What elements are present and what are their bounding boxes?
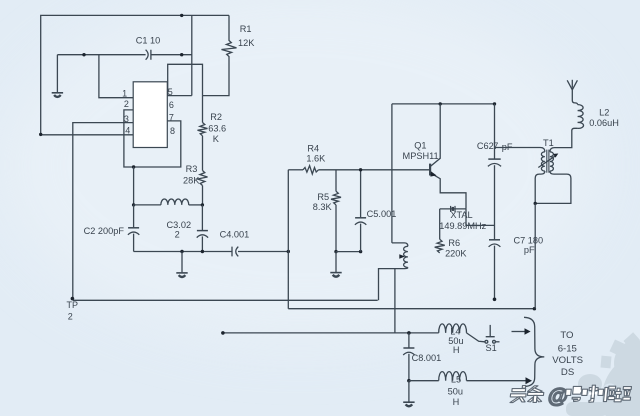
node dot L1 left [132,203,135,206]
capacitor C4 [232,247,238,257]
inductor L5 [439,372,467,381]
wire T1 bottoms box [535,171,571,203]
node dot pin2 net [132,165,135,168]
svg-text:TO: TO [560,330,573,341]
svg-text:T1: T1 [543,138,554,148]
svg-text:6: 6 [169,100,174,110]
svg-text:2: 2 [175,230,180,240]
brace [524,317,544,386]
capacitor C8 [403,333,414,381]
wire down to L1 node [133,167,135,205]
node dot near pin5 riser [180,53,183,56]
char tiao [526,386,544,403]
arrow lower [526,377,533,384]
svg-text:L4: L4 [450,327,460,337]
node dot C8 top [407,331,411,335]
node dot rail right end [533,307,536,310]
wire pin5 stub [167,95,192,97]
svg-text:H: H [453,397,460,407]
resistor R4 [303,166,319,174]
node dot C3 bottom [201,250,204,253]
wire left riser mid section [287,170,289,309]
node dot on top rail [180,14,183,17]
wire R2-R3 [202,136,204,171]
svg-text:L2: L2 [599,108,609,118]
capacitor C5 [355,170,366,252]
svg-text:@: @ [547,385,569,408]
arrow upper [512,328,531,335]
wire pin2 loop to pin7 [124,110,181,167]
svg-text:8: 8 [170,126,175,136]
svg-text:R6: R6 [448,238,460,248]
svg-text:2: 2 [124,99,129,109]
inductor tapped coil [379,243,408,300]
node dot R5 bottom [334,250,337,253]
capacitor C6 [488,159,501,166]
wire C4 to mid [238,251,288,253]
svg-text:R1: R1 [240,24,252,34]
resistor R5 [331,170,341,252]
antenna [567,80,577,90]
svg-text:Q1: Q1 [414,141,426,151]
node dot on C1 wire [82,53,85,56]
resistor R6 [435,239,445,253]
char hu [581,385,598,402]
svg-text:R3: R3 [186,164,198,174]
transistor Q1 [430,104,466,209]
resistor R1 [203,15,237,95]
crystal XTAL [451,206,455,212]
svg-text:C7 180: C7 180 [513,235,543,245]
wire L5 left lead [409,380,439,382]
inductor L1 [161,199,189,205]
wire R2 chain vertical [202,96,204,123]
svg-text:C4.001: C4.001 [220,230,250,240]
node dot C8 bottom [407,379,411,383]
char ming [565,386,582,401]
svg-text:C2 200pF: C2 200pF [84,226,125,236]
node dot T1 bottom [534,202,537,205]
wire gnd stub mid [181,252,183,273]
svg-text:C62: C62 [477,141,494,151]
svg-text:pF: pF [502,142,513,152]
wire xtal to R6 [439,209,441,239]
wire R5 to C5 bottom [336,251,361,253]
ground mid [176,273,187,277]
gear watermark big [566,332,640,416]
wire collector rail [392,103,495,105]
svg-text:C1 10: C1 10 [136,36,161,46]
node dot collector [439,102,442,105]
wire C6 to C7 [494,165,496,239]
wire to T1 primary top [495,148,545,152]
wire TP2 rail [73,299,378,301]
wire feedback riser [391,104,393,243]
wire pin3 left [73,123,133,301]
wire pin1 riser [99,55,133,98]
svg-text:R4: R4 [307,144,319,154]
svg-text:R5: R5 [317,192,329,202]
svg-text:DS: DS [561,367,574,378]
svg-text:H: H [453,345,460,355]
svg-text:4: 4 [125,126,130,136]
wire coil tap down [394,269,396,333]
svg-text:63.6: 63.6 [208,124,226,134]
node dot L1 right [201,203,204,206]
inductor L2 [572,88,584,131]
wire L4 to switch [467,333,485,342]
node dot L4 rail left [221,331,225,335]
svg-text:1.6K: 1.6K [306,154,326,164]
capacitor C2 [128,205,139,252]
wire top rail [41,15,229,134]
svg-text:5: 5 [168,87,173,97]
wire T1 secondary top [550,130,572,151]
capacitor C3 [197,205,208,252]
node dot C7 bottom [493,298,497,302]
svg-text:VOLTS: VOLTS [552,355,583,366]
node TP dot [71,297,75,301]
wire gnd stub R5 [335,252,337,272]
svg-text:TP: TP [67,300,79,310]
node dot mid rail [287,250,290,253]
wire ground rail to C4 [134,251,232,253]
ground R5 [330,273,341,277]
inductor L4 [439,324,467,333]
wire R4 left lead [288,169,303,171]
node dot C6 top [493,102,496,105]
resistor R3 [198,171,208,186]
node dot gnd stub [180,250,183,253]
wire T1 to rail [534,203,536,308]
wire bottom L4 rail [223,332,439,334]
svg-text:8.3K: 8.3K [313,202,333,212]
wire L1 right lead [189,204,203,206]
wire xtal horizontal [440,208,466,210]
svg-text:L5: L5 [451,375,461,385]
svg-text:0.06uH: 0.06uH [589,118,619,128]
svg-text:28K: 28K [183,176,200,186]
switch S1 [485,325,500,343]
wire pin5 to R2 top loop [168,64,203,95]
svg-text:K: K [213,134,220,144]
resistor R2 [198,123,208,136]
svg-text:XTAL: XTAL [450,210,472,220]
svg-text:220K: 220K [445,249,467,259]
capacitor C1 [146,50,151,60]
watermark text [509,385,632,408]
node pin4 corner dot [39,133,42,136]
wire xtal right to column [466,209,495,226]
svg-text:50u: 50u [448,387,463,397]
svg-text:12K: 12K [238,38,255,48]
svg-text:6-15: 6-15 [558,344,577,355]
wire pin5 riser [191,15,193,95]
char la1 [597,386,616,401]
capacitor C6 column top [494,104,496,159]
svg-text:7: 7 [493,141,498,151]
wire gnd stub C8 [408,381,410,402]
ground bottom [403,402,414,406]
wire L1 left lead [134,204,161,206]
svg-text:C8.001: C8.001 [412,353,442,363]
svg-text:MPSH11: MPSH11 [403,151,439,161]
svg-text:R2: R2 [210,112,222,122]
char tou [510,386,527,403]
wire C7 bottom [494,246,496,300]
wire C1 net horizontal [57,54,145,56]
node dot C5 bottom [359,250,362,253]
wire R4 right lead to Q1 base [319,169,430,171]
svg-text:2: 2 [68,312,73,322]
wire R3 bottom [202,186,204,205]
wire power rail [288,308,534,310]
wire L5 to arrow [467,380,527,382]
char la2 [614,387,632,402]
svg-text:S1: S1 [485,343,496,353]
svg-text:pF: pF [524,245,535,255]
ground left [52,93,63,97]
op-amp U1 IC body [133,82,167,148]
transformer T1 [538,150,558,173]
capacitor C7 [489,240,501,247]
wire ground stub left [56,55,58,92]
svg-text:C3.02: C3.02 [167,220,192,230]
svg-text:1: 1 [122,89,127,99]
wire C1 right [151,54,192,56]
node dot C5 top [359,168,362,171]
